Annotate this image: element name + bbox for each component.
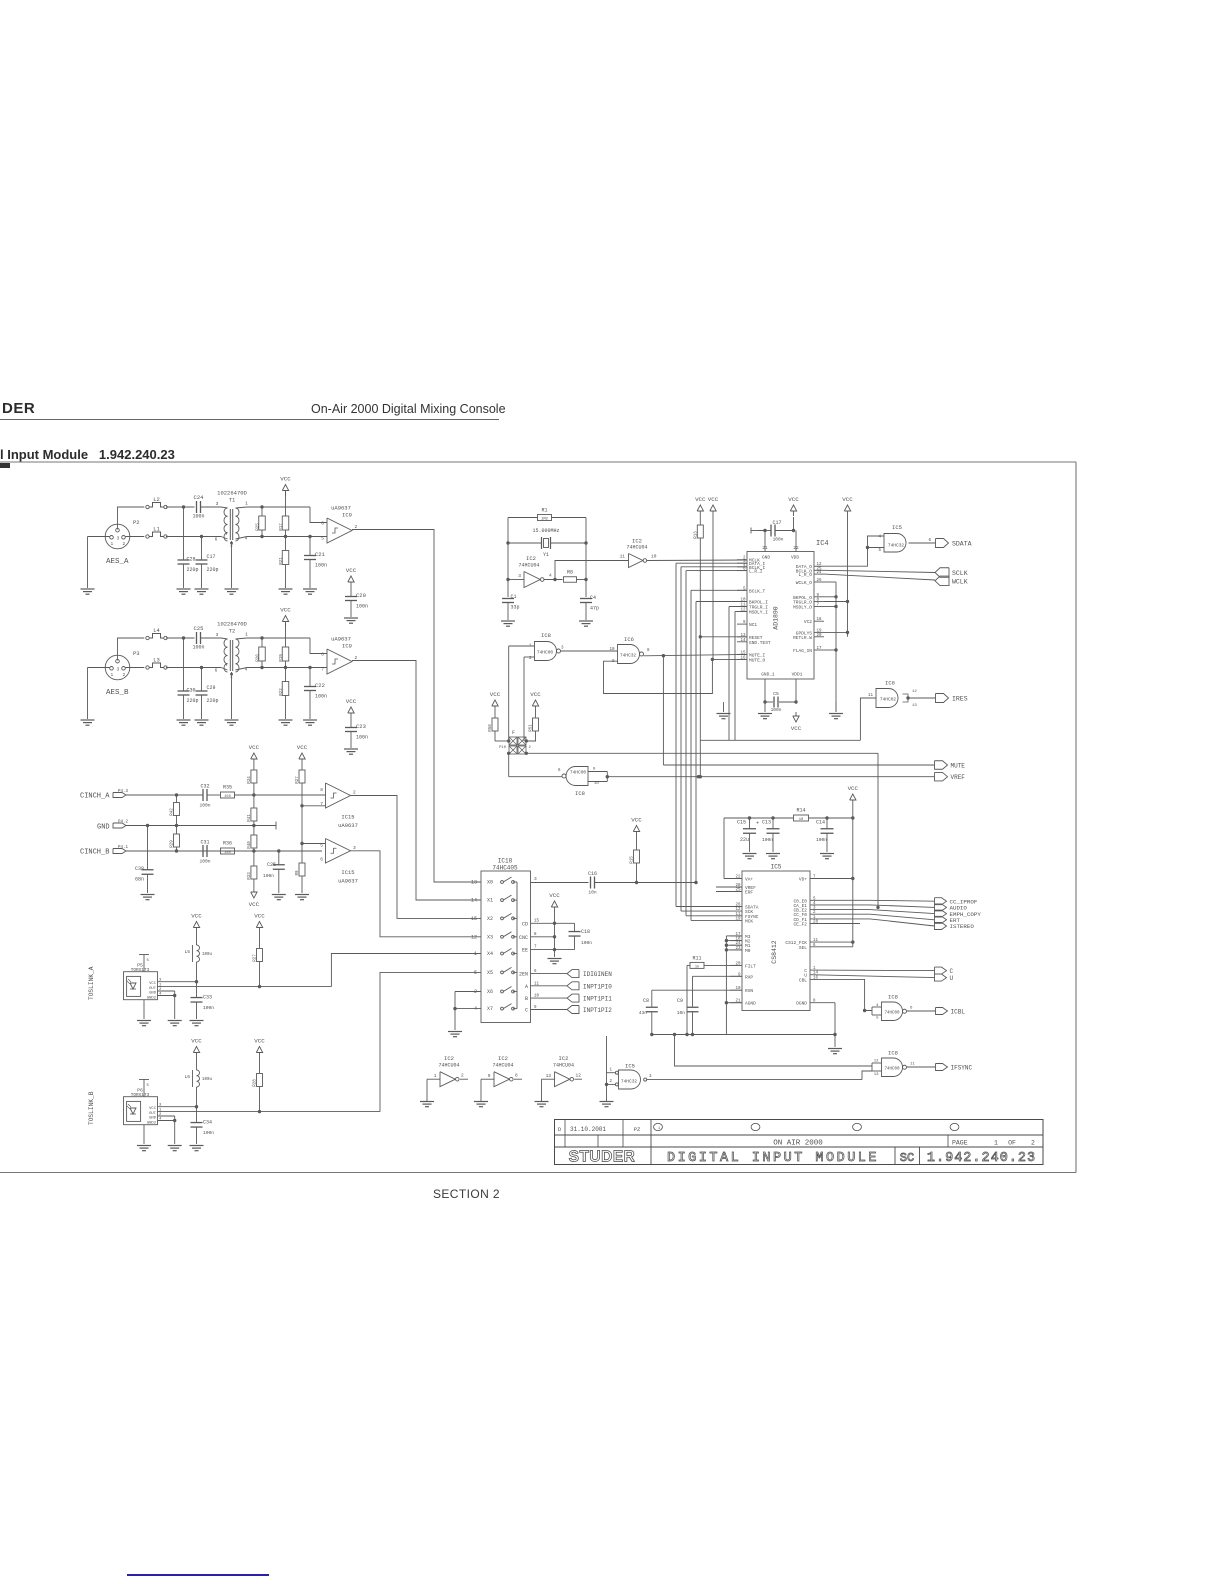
- svg-text:IC2: IC2: [498, 1055, 508, 1062]
- svg-text:22: 22: [735, 876, 741, 880]
- svg-text:C17: C17: [207, 554, 216, 560]
- svg-text:5: 5: [147, 1084, 150, 1088]
- svg-text:19: 19: [735, 917, 741, 921]
- svg-text:CE_F2: CE_F2: [793, 922, 807, 928]
- svg-text:BCLK_T: BCLK_T: [749, 588, 766, 594]
- svg-text:13: 13: [874, 1073, 879, 1077]
- svg-text:VCC: VCC: [848, 785, 859, 792]
- svg-text:150: 150: [224, 795, 230, 799]
- svg-text:GND: GND: [97, 824, 110, 832]
- svg-text:VCC: VCC: [490, 691, 501, 698]
- svg-text:IC18: IC18: [498, 858, 513, 865]
- svg-text:C23: C23: [356, 723, 366, 730]
- svg-text:2EN: 2EN: [519, 972, 528, 978]
- svg-text:NC1: NC1: [749, 622, 757, 628]
- svg-text:VDD: VDD: [791, 555, 799, 561]
- svg-text:D: D: [558, 1126, 562, 1133]
- svg-text:C32: C32: [200, 784, 209, 790]
- svg-text:220p: 220p: [207, 567, 219, 573]
- svg-text:VCC: VCC: [249, 744, 260, 751]
- svg-text:IC4: IC4: [816, 540, 829, 548]
- svg-text:VCC: VCC: [346, 567, 357, 574]
- svg-text:P10: P10: [499, 746, 507, 750]
- svg-text:C1: C1: [511, 594, 517, 600]
- svg-text:X2: X2: [487, 916, 493, 922]
- svg-text:CD: CD: [522, 921, 528, 927]
- svg-text:R35: R35: [223, 785, 232, 791]
- svg-text:5: 5: [474, 970, 477, 976]
- svg-text:L6: L6: [184, 1074, 190, 1080]
- svg-text:1: 1: [110, 672, 113, 678]
- svg-text:1.942.240.23: 1.942.240.23: [927, 1151, 1036, 1166]
- svg-text:74HC00: 74HC00: [884, 1068, 900, 1072]
- svg-text:3: 3: [649, 1075, 652, 1079]
- svg-text:AGND: AGND: [745, 1001, 756, 1007]
- svg-text:VCC: VCC: [346, 698, 357, 705]
- svg-text:STUDER: STUDER: [569, 1149, 636, 1166]
- svg-text:Y1: Y1: [543, 552, 549, 558]
- svg-text:uA9637: uA9637: [331, 505, 351, 512]
- svg-text:M0: M0: [745, 948, 751, 954]
- svg-text:11: 11: [868, 694, 874, 698]
- svg-text:220p: 220p: [187, 698, 199, 704]
- svg-text:3: 3: [216, 632, 219, 638]
- svg-text:4: 4: [159, 993, 162, 997]
- svg-text:ICBL: ICBL: [951, 1009, 966, 1016]
- svg-text:1: 1: [245, 501, 248, 507]
- svg-text:3: 3: [518, 573, 521, 579]
- svg-text:6: 6: [320, 857, 323, 863]
- svg-text:31.10.2001: 31.10.2001: [570, 1126, 606, 1133]
- svg-text:OUT: OUT: [149, 987, 157, 991]
- svg-text:B: B: [525, 996, 528, 1002]
- svg-text:SCLK: SCLK: [952, 570, 968, 577]
- svg-text:TOSLINK_B: TOSLINK_B: [88, 1091, 95, 1125]
- svg-text:3: 3: [561, 647, 564, 651]
- svg-text:C4: C4: [590, 595, 596, 601]
- svg-text:100n: 100n: [192, 514, 204, 520]
- svg-text:100n: 100n: [315, 694, 327, 700]
- svg-text:CS8412: CS8412: [771, 940, 778, 964]
- svg-text:7: 7: [320, 801, 323, 807]
- svg-text:74HC00: 74HC00: [884, 1012, 900, 1016]
- svg-text:OUT: OUT: [149, 1112, 157, 1116]
- svg-text:RXN: RXN: [745, 988, 753, 994]
- svg-text:F: F: [512, 730, 515, 736]
- svg-text:9: 9: [612, 660, 615, 664]
- svg-text:R17: R17: [280, 523, 284, 531]
- svg-text:R14: R14: [796, 808, 805, 814]
- svg-text:9: 9: [593, 768, 596, 772]
- svg-text:VCC: VCC: [191, 1038, 202, 1045]
- svg-text:IC5: IC5: [625, 1063, 635, 1070]
- svg-text:74HC02: 74HC02: [880, 697, 897, 703]
- svg-text:FLAG_IN: FLAG_IN: [793, 648, 812, 654]
- svg-text:100n: 100n: [762, 837, 773, 843]
- svg-text:3: 3: [353, 845, 356, 851]
- svg-text:IC9: IC9: [342, 643, 352, 650]
- svg-text:AES_B: AES_B: [106, 689, 129, 697]
- svg-text:1: 1: [434, 1073, 437, 1079]
- svg-text:10: 10: [594, 782, 599, 786]
- svg-text:8: 8: [647, 649, 650, 653]
- svg-text:OF: OF: [1008, 1140, 1016, 1147]
- svg-text:IC2: IC2: [632, 538, 642, 545]
- svg-text:1: 1: [609, 1069, 612, 1073]
- svg-text:R51: R51: [530, 724, 534, 732]
- svg-text:C20: C20: [356, 592, 366, 599]
- svg-text:CBL: CBL: [799, 977, 807, 983]
- svg-text:5: 5: [321, 536, 324, 542]
- svg-text:IC2: IC2: [526, 555, 536, 562]
- svg-text:C16: C16: [588, 871, 597, 877]
- svg-text:C29: C29: [207, 685, 216, 691]
- svg-text:C21: C21: [315, 551, 326, 558]
- svg-text:2: 2: [353, 790, 356, 796]
- svg-text:100n: 100n: [203, 1005, 214, 1011]
- svg-text:12: 12: [874, 1060, 879, 1064]
- svg-text:R28: R28: [254, 1079, 258, 1087]
- svg-text:12: 12: [576, 1073, 582, 1079]
- svg-text:ISTEREO: ISTEREO: [950, 923, 975, 930]
- svg-text:10: 10: [799, 818, 804, 822]
- svg-text:2: 2: [529, 746, 532, 750]
- svg-text:U: U: [950, 975, 954, 982]
- svg-text:C: C: [950, 968, 954, 975]
- svg-text:IC2: IC2: [444, 1055, 454, 1062]
- svg-text:1: 1: [529, 645, 532, 649]
- svg-text:4: 4: [159, 1118, 162, 1122]
- svg-text:6: 6: [928, 539, 931, 543]
- svg-text:100u: 100u: [202, 1078, 213, 1082]
- svg-text:100n: 100n: [203, 1130, 214, 1136]
- svg-text:100n: 100n: [581, 940, 592, 946]
- svg-text:R21: R21: [280, 557, 284, 565]
- svg-text:100n: 100n: [192, 645, 204, 651]
- svg-text:2: 2: [122, 541, 125, 547]
- svg-text:uA9637: uA9637: [338, 878, 358, 885]
- svg-text:100n: 100n: [199, 859, 210, 865]
- svg-text:IC8: IC8: [575, 790, 585, 797]
- svg-text:6: 6: [910, 1007, 913, 1011]
- svg-text:2: 2: [609, 1080, 612, 1084]
- svg-text:100n: 100n: [263, 873, 274, 879]
- svg-text:R33: R33: [248, 872, 252, 880]
- svg-text:GND2: GND2: [147, 1121, 157, 1125]
- svg-text:VD+: VD+: [799, 877, 807, 883]
- svg-text:8: 8: [534, 933, 537, 937]
- svg-text:1: 1: [245, 632, 248, 638]
- svg-text:10: 10: [609, 648, 615, 652]
- svg-text:R26: R26: [257, 654, 261, 662]
- svg-text:CNC: CNC: [519, 935, 528, 941]
- svg-text:7: 7: [321, 667, 324, 673]
- svg-text:8: 8: [320, 787, 323, 793]
- svg-text:5: 5: [876, 1017, 879, 1021]
- svg-text:6: 6: [215, 537, 218, 543]
- svg-text:74HC32: 74HC32: [620, 653, 637, 659]
- svg-text:T1: T1: [229, 497, 236, 504]
- svg-text:13: 13: [546, 1073, 552, 1079]
- svg-text:C24: C24: [194, 494, 205, 501]
- svg-text:R50: R50: [489, 724, 493, 732]
- svg-text:IC8: IC8: [888, 1050, 898, 1057]
- svg-text:3: 3: [534, 876, 537, 882]
- svg-text:X7: X7: [487, 1006, 493, 1012]
- svg-text:10n: 10n: [588, 890, 597, 896]
- svg-text:12: 12: [471, 934, 477, 940]
- svg-text:SC: SC: [900, 1151, 914, 1165]
- svg-text:GND_1: GND_1: [761, 672, 775, 678]
- svg-text:220p: 220p: [187, 567, 199, 573]
- svg-text:74HC32: 74HC32: [621, 1079, 638, 1085]
- svg-text:15: 15: [471, 916, 477, 922]
- svg-text:4: 4: [474, 1006, 477, 1012]
- svg-text:C25: C25: [267, 862, 276, 868]
- svg-text:C33: C33: [203, 995, 212, 1001]
- svg-text:uA9637: uA9637: [331, 636, 351, 643]
- svg-text:GND: GND: [149, 992, 157, 996]
- svg-text:RETLR.W: RETLR.W: [793, 635, 812, 641]
- svg-text:R19: R19: [280, 654, 284, 662]
- svg-text:VCC: VCC: [530, 691, 541, 698]
- svg-text:2: 2: [461, 1073, 464, 1079]
- svg-text:R13: R13: [695, 531, 699, 539]
- svg-text:EE: EE: [522, 948, 528, 954]
- svg-text:IC6: IC6: [624, 636, 634, 643]
- svg-text:8: 8: [515, 1073, 518, 1079]
- svg-text:13: 13: [912, 704, 917, 708]
- svg-text:VCC: VCC: [254, 1038, 265, 1045]
- svg-text:IC5: IC5: [771, 864, 782, 871]
- svg-text:X0: X0: [487, 880, 493, 886]
- svg-text:11: 11: [620, 554, 626, 560]
- svg-text:C18: C18: [581, 929, 590, 935]
- svg-text:3: 3: [216, 501, 219, 507]
- svg-text:8: 8: [321, 652, 324, 658]
- svg-text:12: 12: [912, 690, 917, 694]
- svg-text:R41: R41: [248, 814, 252, 822]
- svg-text:VREF: VREF: [951, 774, 966, 781]
- svg-text:MUTE: MUTE: [951, 763, 966, 770]
- svg-text:uA9637: uA9637: [338, 822, 358, 829]
- svg-text:VA+: VA+: [745, 877, 753, 883]
- svg-text:6: 6: [321, 521, 324, 527]
- svg-text:VCC: VCC: [149, 1107, 157, 1111]
- svg-text:VCC: VCC: [149, 982, 157, 986]
- svg-text:74HCU04: 74HCU04: [626, 545, 647, 551]
- svg-text:VCC: VCC: [791, 725, 802, 732]
- svg-text:VCC: VCC: [549, 892, 560, 899]
- svg-text:33p: 33p: [511, 605, 520, 611]
- svg-text:C8: C8: [643, 998, 649, 1004]
- svg-text:10226470D: 10226470D: [217, 621, 247, 628]
- svg-text:C38: C38: [135, 866, 144, 872]
- svg-text:11: 11: [910, 1063, 915, 1067]
- svg-text:R25: R25: [257, 523, 261, 531]
- svg-text:VCC: VCC: [191, 913, 202, 920]
- svg-text:IC15: IC15: [341, 814, 354, 821]
- svg-text:C25: C25: [194, 625, 204, 632]
- svg-text:DGND: DGND: [796, 1001, 807, 1007]
- svg-text:74HCU04: 74HCU04: [492, 1063, 513, 1069]
- svg-text:RXP: RXP: [745, 974, 753, 980]
- svg-text:PAGE: PAGE: [952, 1140, 968, 1147]
- svg-text:R34: R34: [248, 776, 252, 784]
- svg-text:68n: 68n: [135, 877, 144, 883]
- svg-text:9: 9: [488, 1073, 491, 1079]
- svg-text:R27: R27: [254, 954, 258, 962]
- svg-text:100n: 100n: [356, 735, 368, 741]
- svg-text:INPT1PI1: INPT1PI1: [583, 996, 612, 1003]
- svg-text:AD1890: AD1890: [773, 606, 780, 630]
- svg-text:220p: 220p: [207, 698, 219, 704]
- svg-text:22u: 22u: [740, 837, 749, 843]
- svg-text:74HCU04: 74HCU04: [518, 563, 539, 569]
- svg-text:26: 26: [735, 904, 741, 908]
- svg-text:WCLK: WCLK: [952, 579, 968, 586]
- svg-text:1M2: 1M2: [541, 518, 549, 522]
- svg-text:VC2: VC2: [804, 619, 812, 625]
- svg-text:ON AIR 2000: ON AIR 2000: [773, 1140, 823, 1148]
- svg-text:74HCU04: 74HCU04: [553, 1063, 574, 1069]
- svg-text:IRES: IRES: [952, 696, 968, 703]
- svg-text:15.000MHz: 15.000MHz: [532, 528, 559, 534]
- svg-text:100n: 100n: [356, 604, 368, 610]
- svg-text:R40: R40: [248, 841, 252, 849]
- svg-text:VCC: VCC: [249, 901, 260, 908]
- svg-text:VCC: VCC: [254, 913, 265, 920]
- svg-text:74HC00: 74HC00: [537, 650, 554, 656]
- svg-text:GND2: GND2: [147, 996, 157, 1000]
- svg-text:TORX173: TORX173: [131, 968, 150, 973]
- svg-text:SDATA: SDATA: [952, 541, 972, 548]
- svg-text:R42: R42: [171, 808, 175, 816]
- svg-text:GND: GND: [762, 555, 770, 561]
- svg-text:GND.TEST: GND.TEST: [749, 640, 771, 646]
- svg-text:AES_A: AES_A: [106, 558, 129, 566]
- svg-text:14: 14: [471, 898, 477, 904]
- svg-text:100n: 100n: [199, 803, 210, 809]
- svg-text:VCC: VCC: [708, 496, 719, 503]
- svg-text:X3: X3: [487, 934, 493, 940]
- svg-text:MSDLY_O: MSDLY_O: [793, 605, 812, 611]
- svg-text:100n: 100n: [773, 537, 784, 543]
- svg-text:T2: T2: [229, 628, 236, 635]
- svg-text:R29: R29: [171, 840, 175, 848]
- svg-text:10: 10: [651, 554, 657, 560]
- svg-text:VCC: VCC: [788, 496, 799, 503]
- svg-text:MUTE_O: MUTE_O: [749, 657, 766, 663]
- svg-text:R15: R15: [631, 856, 635, 864]
- svg-text:C28: C28: [187, 557, 196, 563]
- svg-text:C15: C15: [737, 820, 746, 826]
- svg-text:C14: C14: [816, 820, 825, 826]
- svg-text:R9: R9: [296, 870, 300, 876]
- svg-text:INPT1PI2: INPT1PI2: [583, 1007, 612, 1014]
- svg-text:43n: 43n: [639, 1010, 648, 1016]
- svg-text:1: 1: [474, 951, 477, 957]
- svg-text:A: A: [525, 984, 528, 990]
- svg-text:IC2: IC2: [559, 1055, 569, 1062]
- svg-text:3: 3: [116, 535, 119, 541]
- svg-text:WCLK_O: WCLK_O: [796, 580, 813, 586]
- svg-text:2: 2: [1031, 1140, 1035, 1147]
- svg-text:VCC: VCC: [297, 744, 308, 751]
- svg-text:DIGITAL INPUT MODULE: DIGITAL INPUT MODULE: [667, 1151, 879, 1166]
- svg-text:100n: 100n: [315, 563, 327, 569]
- svg-text:X5: X5: [487, 970, 493, 976]
- svg-text:47p: 47p: [590, 606, 599, 612]
- svg-text:IC8: IC8: [541, 632, 551, 639]
- svg-text:100n: 100n: [771, 707, 782, 713]
- svg-text:1: 1: [658, 1127, 660, 1131]
- svg-text:VCC: VCC: [631, 817, 642, 824]
- svg-text:L1: L1: [153, 526, 160, 533]
- svg-text:VCC: VCC: [280, 476, 291, 483]
- svg-text:74HC32: 74HC32: [888, 543, 905, 549]
- svg-text:5: 5: [147, 959, 150, 963]
- svg-text:VCC: VCC: [695, 496, 706, 503]
- svg-text:MSDLY_I: MSDLY_I: [749, 610, 768, 616]
- svg-text:X4: X4: [487, 951, 493, 957]
- svg-text:TOSLINK_A: TOSLINK_A: [88, 966, 95, 1000]
- svg-text:4: 4: [549, 573, 552, 579]
- svg-text:L4: L4: [153, 627, 160, 634]
- svg-text:X6: X6: [487, 989, 493, 995]
- svg-text:INPT1PI0: INPT1PI0: [583, 983, 612, 990]
- svg-text:C22: C22: [315, 682, 325, 689]
- svg-text:TORX173: TORX173: [131, 1093, 150, 1098]
- svg-text:IC8: IC8: [888, 994, 898, 1001]
- svg-text:MCK: MCK: [745, 918, 753, 924]
- svg-text:7: 7: [534, 946, 537, 950]
- svg-text:12: 12: [735, 908, 741, 912]
- svg-text:C5: C5: [773, 691, 779, 697]
- svg-text:11: 11: [735, 913, 741, 917]
- svg-text:10226470D: 10226470D: [217, 490, 247, 497]
- svg-text:VCC: VCC: [842, 496, 853, 503]
- svg-text:L_R_O: L_R_O: [798, 572, 812, 578]
- svg-text:100u: 100u: [202, 953, 213, 957]
- svg-text:IC9: IC9: [342, 512, 352, 519]
- svg-text:2: 2: [474, 989, 477, 995]
- svg-text:74HC405: 74HC405: [492, 865, 518, 872]
- svg-text:3: 3: [116, 666, 119, 672]
- svg-text:13: 13: [471, 880, 477, 886]
- svg-text:74HC00: 74HC00: [570, 770, 587, 776]
- svg-text:1: 1: [994, 1140, 998, 1147]
- svg-text:C34: C34: [203, 1120, 212, 1126]
- svg-text:PZ: PZ: [634, 1126, 641, 1133]
- svg-text:P2: P2: [133, 519, 140, 526]
- svg-text:ERF: ERF: [745, 890, 753, 896]
- svg-text:SEL: SEL: [799, 945, 807, 951]
- svg-text:FILT: FILT: [745, 963, 756, 969]
- svg-text:C9: C9: [677, 998, 683, 1004]
- svg-text:R11: R11: [692, 956, 701, 962]
- svg-text:150: 150: [224, 851, 230, 855]
- svg-text:IDIGINEN: IDIGINEN: [583, 971, 612, 978]
- svg-text:IC15: IC15: [341, 869, 354, 876]
- svg-text:C30: C30: [187, 688, 196, 694]
- svg-text:100n: 100n: [816, 837, 827, 843]
- svg-text:L5: L5: [184, 949, 190, 955]
- svg-text:R8: R8: [567, 570, 573, 576]
- svg-text:6: 6: [558, 769, 561, 773]
- svg-text:CINCH_B: CINCH_B: [80, 849, 109, 857]
- svg-text:IC6: IC6: [885, 680, 895, 687]
